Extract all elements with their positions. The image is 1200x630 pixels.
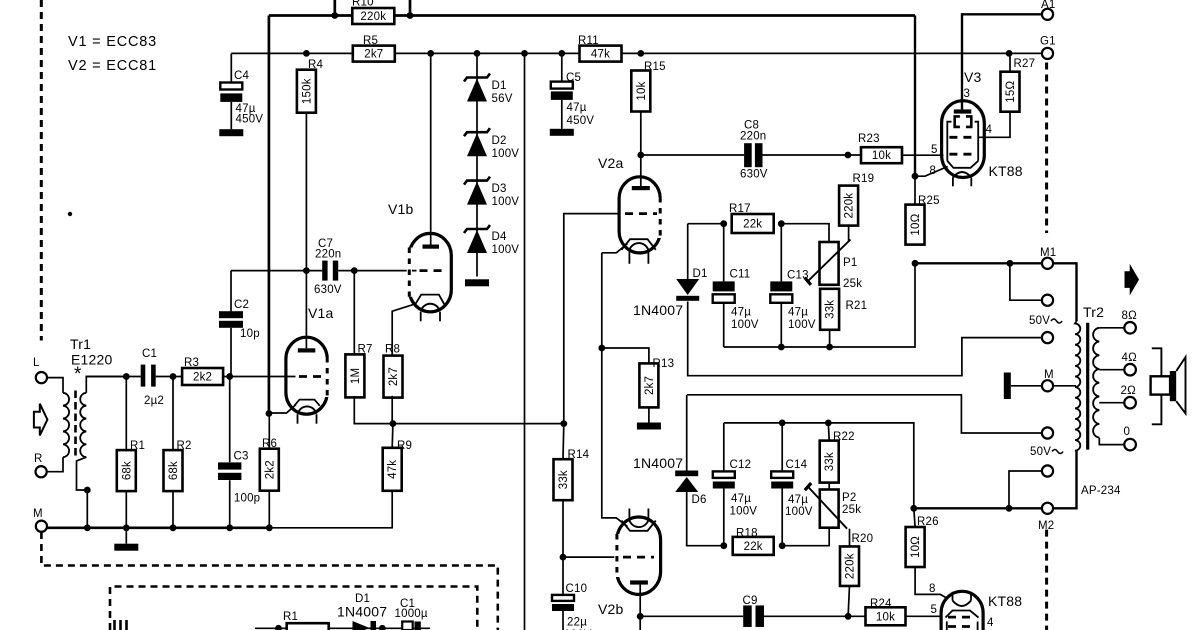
node: R22 top <box>825 420 832 427</box>
resistor R14 <box>554 459 573 500</box>
node: R21 bottom <box>826 344 833 351</box>
resistor R6 <box>260 449 279 491</box>
svg-text:C10: C10 <box>566 583 588 595</box>
svg-text:47µ: 47µ <box>788 307 808 319</box>
terminal M input <box>36 521 47 532</box>
svg-text:G1: G1 <box>1040 36 1056 48</box>
resistor R23 <box>861 147 902 163</box>
wire: C7 out to V1b grid <box>354 270 416 272</box>
wire: Tr1 secondary bottom to ground bus <box>77 457 88 528</box>
resistor R17 <box>732 214 774 233</box>
capacitor C2 wire <box>230 271 232 312</box>
capacitor C12 <box>723 423 725 472</box>
wire: x=525 long rail down to bottom edge <box>524 53 526 630</box>
svg-text:2k2: 2k2 <box>193 372 212 384</box>
potentiometer P1 <box>820 242 839 285</box>
wire: P2 wiper to R20 <box>849 529 851 547</box>
svg-text:A1: A1 <box>1041 0 1055 11</box>
svg-text:D4: D4 <box>492 231 508 243</box>
wire: B+ top rail to R10 <box>269 14 915 17</box>
svg-text:5: 5 <box>931 604 938 616</box>
svg-text:10k: 10k <box>872 150 891 162</box>
capacitor C11 <box>723 224 725 282</box>
resistor R10 <box>352 8 394 24</box>
node: C5 top <box>558 50 565 57</box>
svg-text:M: M <box>33 508 43 520</box>
tube V1b anode lead and plate <box>430 53 432 244</box>
input arrow <box>34 404 48 436</box>
tube V2a anode lead and plate <box>640 155 642 187</box>
svg-text:R1: R1 <box>130 440 145 452</box>
svg-text:47k: 47k <box>591 49 610 61</box>
terminal 8 ohm <box>1124 322 1136 334</box>
svg-text:KT88: KT88 <box>989 163 1023 179</box>
tube V1b envelope <box>409 233 451 311</box>
svg-text:47µ: 47µ <box>731 307 751 319</box>
output arrow <box>1125 264 1140 296</box>
node: V1b anode column top <box>427 50 434 57</box>
wire: M2 to primary bottom <box>1053 451 1076 508</box>
tube V4 heater legs <box>952 592 954 601</box>
diode D1 1N4007 <box>676 279 699 295</box>
svg-text:V1a: V1a <box>308 305 334 321</box>
svg-text:D6: D6 <box>692 494 707 506</box>
svg-text:8: 8 <box>930 165 937 177</box>
wire: D6 rail to 50V tap lower <box>687 395 1042 433</box>
wire: lower rail C12C14R22 tops <box>724 423 914 508</box>
node: C7 out / R7 top <box>351 267 358 274</box>
tube V3 cathode dome <box>947 161 978 168</box>
wire: R8 bottom <box>391 396 393 424</box>
wire: grid node to C3 <box>229 377 231 463</box>
svg-text:1N4007: 1N4007 <box>633 302 683 318</box>
capacitor C3 <box>218 462 241 469</box>
svg-text:220k: 220k <box>844 193 856 219</box>
tube V3 inner box <box>947 122 951 161</box>
wire: R2 column <box>172 377 174 451</box>
wire: D1 bottom to 50V tap rail <box>688 302 1042 376</box>
wire: secondary 4 ohm tap <box>1099 369 1124 371</box>
zener D2 <box>464 128 490 136</box>
node: R10 right junction <box>407 12 414 19</box>
svg-text:2k7: 2k7 <box>364 49 383 61</box>
wire: branch to second primary tap <box>1010 263 1042 300</box>
ground: zener chain <box>465 279 489 286</box>
svg-text:50V: 50V <box>1030 446 1051 458</box>
wire: V1a anode row <box>231 270 354 272</box>
node: R19/R23 junction <box>845 152 852 159</box>
svg-text:M: M <box>1044 369 1054 381</box>
node: V2a anode <box>637 152 644 159</box>
svg-text:R9: R9 <box>397 440 412 452</box>
svg-text:Tr1: Tr1 <box>70 336 91 352</box>
wire: V2a cathode lead <box>602 244 628 253</box>
svg-text:R2: R2 <box>177 440 192 452</box>
tube V3 beam plates <box>955 116 960 127</box>
tube V1b grid dashes <box>420 269 447 272</box>
svg-text:2µ2: 2µ2 <box>144 395 164 407</box>
node A: R17 left / C11 top <box>720 220 727 227</box>
svg-text:100V: 100V <box>788 319 816 331</box>
tube V1b cathode <box>415 295 444 305</box>
node: M2 branch <box>1006 505 1013 512</box>
dashed link M to PSU box <box>41 532 497 630</box>
svg-text:47µ: 47µ <box>567 102 587 114</box>
svg-text:220k: 220k <box>360 11 386 23</box>
wire: V1a cathode lead to R6 node <box>269 405 296 414</box>
resistor R8 <box>384 356 403 398</box>
node: M1 branch <box>1007 260 1014 267</box>
svg-text:450V: 450V <box>567 115 595 127</box>
node: x=525 rail top <box>521 50 528 57</box>
svg-text:C1: C1 <box>142 348 157 360</box>
wire: branch to tap 6 <box>1009 471 1042 508</box>
svg-text:*: * <box>74 364 82 385</box>
terminal M <box>1042 380 1053 391</box>
resistor R18 <box>733 537 774 555</box>
svg-text:C4: C4 <box>234 70 250 82</box>
svg-text:2k7: 2k7 <box>644 376 656 395</box>
node: C12 bottom / R18 left <box>720 542 727 549</box>
wire: V1b cathode lead to R8 <box>392 304 415 356</box>
svg-text:15Ω: 15Ω <box>1005 81 1017 103</box>
terminal 2 ohm <box>1124 397 1136 409</box>
wire: R27 top <box>1009 53 1011 71</box>
transformer Tr1 core <box>74 391 77 459</box>
node: R26 top <box>910 505 917 512</box>
capacitor C9 <box>743 605 764 627</box>
svg-text:8: 8 <box>929 583 936 595</box>
wire: R10 left stub up <box>333 0 336 16</box>
wire: upper cathode rail to R25 <box>724 263 915 347</box>
svg-text:C2: C2 <box>234 299 249 311</box>
svg-text:10Ω: 10Ω <box>910 213 922 235</box>
terminal 0 <box>1124 439 1136 451</box>
diode D6 1N4007 lead <box>686 395 688 471</box>
node: V1a cathode / R6 <box>266 410 273 417</box>
svg-text:33k: 33k <box>824 452 836 471</box>
transformer Tr2 secondary winding <box>1093 328 1099 438</box>
svg-text:22k: 22k <box>743 219 762 231</box>
svg-text:100V: 100V <box>492 148 520 160</box>
wire: R15 bottom to V2a anode node <box>640 112 642 156</box>
svg-text:D3: D3 <box>492 183 507 195</box>
node: bus C3 <box>226 524 233 531</box>
svg-text:4Ω: 4Ω <box>1122 352 1138 364</box>
PSU resistor R1 (cut) <box>287 623 329 630</box>
svg-text:R5: R5 <box>363 35 378 47</box>
wire: R17 node A to D1 <box>688 223 724 225</box>
svg-text:V2a: V2a <box>598 155 624 171</box>
speaker magnet bar <box>1170 371 1177 401</box>
svg-text:R24: R24 <box>870 598 892 610</box>
svg-text:R7: R7 <box>358 344 373 356</box>
tube V2b plate and anode lead <box>630 580 648 584</box>
wire: screen supply row y=53.4 from C4 to G1 <box>231 52 1041 54</box>
capacitor C1 <box>141 365 156 387</box>
resistor R22 <box>820 441 839 483</box>
svg-text:1M: 1M <box>350 368 362 384</box>
transformer Tr1 secondary winding <box>80 393 86 457</box>
wire: pin 4 from g2 to R27 <box>977 112 1010 138</box>
speaker cone <box>1176 357 1185 413</box>
svg-text:D2: D2 <box>492 135 507 147</box>
svg-text:R19: R19 <box>853 173 875 185</box>
tube V3 heater legs <box>952 178 954 187</box>
wire: node B to P1 top <box>781 224 829 242</box>
wire: R7 bottom <box>354 396 393 424</box>
node: V2b grid node <box>560 554 567 561</box>
wire: cathode column down to V2b cathode <box>602 348 628 527</box>
wire: secondary 0 tap <box>1099 438 1124 445</box>
tube V2b cathode on top <box>622 521 656 531</box>
svg-text:50V: 50V <box>1029 315 1050 327</box>
wire: R10 right stub up <box>409 0 412 16</box>
node: secondary bottom corner <box>84 487 91 494</box>
svg-text:8Ω: 8Ω <box>1122 310 1138 322</box>
wire: V2b grid wire <box>563 556 617 558</box>
svg-text:R26: R26 <box>917 516 939 528</box>
node: V2b anode <box>637 613 644 620</box>
svg-text:R17: R17 <box>729 203 751 215</box>
capacitor C5 lead <box>561 53 563 81</box>
PSU node <box>275 625 282 630</box>
svg-text:R: R <box>34 453 43 465</box>
svg-text:R23: R23 <box>858 133 880 145</box>
capacitor C7 <box>322 261 338 281</box>
svg-text:47µ: 47µ <box>788 494 808 506</box>
dashed PSU inner box <box>110 587 477 630</box>
wire: L to Tr1 primary <box>47 378 63 393</box>
zener chain wire from top row <box>476 53 478 276</box>
node B: R17 right / C13 top <box>778 220 785 227</box>
svg-text:R25: R25 <box>918 195 940 207</box>
svg-text:47µ: 47µ <box>731 493 751 505</box>
svg-text:1N4007: 1N4007 <box>337 604 387 620</box>
ground symbol below R1 <box>125 528 127 544</box>
resistor R2 <box>164 450 183 491</box>
node: bus R1 <box>123 524 130 531</box>
wire: V2a anode row to C8 and R23 <box>641 154 861 156</box>
PSU capacitor C1 (cut) <box>402 622 413 630</box>
transformer Tr2 core <box>1086 323 1089 450</box>
svg-text:R3: R3 <box>184 357 199 369</box>
resistor R3 <box>182 368 223 385</box>
ground: R13 <box>648 407 650 422</box>
svg-text:C5: C5 <box>566 72 581 84</box>
svg-text:100V: 100V <box>731 319 759 331</box>
wire: secondary 8 ohm tap <box>1099 327 1124 329</box>
svg-text:1000µ: 1000µ <box>395 608 428 620</box>
node: cathode/R13 junction <box>598 345 605 352</box>
dashed border right upper <box>1045 63 1048 234</box>
svg-text:220n: 220n <box>315 249 341 261</box>
svg-text:L: L <box>33 357 40 369</box>
speaker driver <box>1151 376 1171 394</box>
node: V1a anode / R4 <box>303 267 310 274</box>
PSU wire (cut) <box>255 627 430 629</box>
node: bus R6 <box>266 524 273 531</box>
svg-text:630V: 630V <box>740 169 768 181</box>
potentiometer P2 <box>820 490 839 528</box>
transformer Tr2 primary winding <box>1075 321 1080 451</box>
PSU node 2 <box>379 625 386 630</box>
svg-text:100V: 100V <box>492 196 520 208</box>
resistor R20 <box>840 546 859 586</box>
svg-text:2Ω: 2Ω <box>1121 385 1137 397</box>
svg-text:V1b: V1b <box>388 201 414 217</box>
wire: R23 to KT88 V3 pin 5 <box>902 154 944 156</box>
svg-text:R27: R27 <box>1014 58 1036 70</box>
svg-text:150k: 150k <box>301 78 313 104</box>
svg-text:68k: 68k <box>168 461 180 480</box>
svg-text:220k: 220k <box>845 553 857 579</box>
svg-text:2k7: 2k7 <box>388 367 400 386</box>
svg-text:220n: 220n <box>740 131 766 143</box>
tube V3 plate <box>954 109 972 113</box>
capacitor C10 <box>562 557 564 595</box>
svg-text:D1: D1 <box>693 268 708 280</box>
svg-text:450V: 450V <box>236 114 264 126</box>
terminal: primary tap 6 <box>1042 465 1053 476</box>
svg-text:1N4007: 1N4007 <box>633 455 683 471</box>
tube V4 g2 dashes <box>948 625 976 628</box>
input terminal R <box>36 466 47 477</box>
svg-text:4: 4 <box>986 124 993 136</box>
svg-text:10k: 10k <box>876 611 895 623</box>
svg-text:68k: 68k <box>121 461 133 480</box>
transformer Tr1 primary winding <box>63 393 69 457</box>
node: R10 left junction <box>331 12 338 19</box>
terminal: primary tap 2 <box>1042 295 1053 306</box>
wire: M1 row <box>915 262 1042 264</box>
svg-text:R20: R20 <box>852 533 874 545</box>
capacitor C2 <box>219 311 243 318</box>
svg-text:KT88: KT88 <box>988 593 1022 609</box>
capacitor C8 <box>744 143 762 167</box>
tube V3 KT88 envelope <box>942 101 985 178</box>
tube V2a cathode <box>622 239 656 250</box>
terminal: 50V tap upper <box>1042 332 1053 343</box>
svg-text:AP-234: AP-234 <box>1081 485 1121 497</box>
tube V1a envelope <box>286 337 327 414</box>
svg-text:R10: R10 <box>352 0 374 9</box>
capacitor C5 <box>551 82 573 89</box>
wire: thick feedback column x=269 down to V1a cathode node <box>268 16 271 414</box>
resistor R7 <box>345 354 364 397</box>
terminal: 50V tap lower <box>1042 427 1053 438</box>
svg-text:3: 3 <box>964 88 971 100</box>
wire: R19 bottom to P1 wiper <box>848 226 850 242</box>
node: R27 top <box>1006 50 1013 57</box>
tube V3 g2 dashes <box>949 136 977 139</box>
capacitor C13 <box>780 224 782 282</box>
svg-text:R22: R22 <box>833 431 855 443</box>
svg-text:10k: 10k <box>636 81 648 100</box>
wire: R24 to KT88 pin 5 <box>906 615 942 617</box>
resistor R4 <box>297 70 316 113</box>
wire: input row <box>87 376 295 378</box>
node: R4 top <box>303 50 310 57</box>
svg-text:100V: 100V <box>730 506 758 518</box>
capacitor C14 <box>781 423 783 472</box>
svg-text:M1: M1 <box>1040 247 1056 259</box>
svg-text:R14: R14 <box>568 449 590 461</box>
svg-text:P1: P1 <box>843 257 857 269</box>
wire: V2b anode down <box>639 616 641 630</box>
tube V1a cathode <box>294 400 320 406</box>
wire: M terminal to primary center tap <box>1053 385 1076 387</box>
wire: C2 to grid node <box>230 328 232 377</box>
svg-text:R11: R11 <box>578 35 599 47</box>
terminal M2 <box>1042 503 1053 514</box>
wire: R to Tr1 primary bottom <box>47 457 63 472</box>
node: C14 bottom / R18 right <box>779 542 786 549</box>
stray dot <box>68 212 72 216</box>
tube V4 inner box <box>946 622 948 630</box>
svg-text:100p: 100p <box>234 493 260 505</box>
node: R8/R9 junction <box>390 420 397 427</box>
svg-text:10p: 10p <box>240 328 260 340</box>
svg-text:C3: C3 <box>234 451 249 463</box>
svg-text:100V: 100V <box>492 244 520 256</box>
svg-text:100V: 100V <box>785 506 813 518</box>
svg-text:33k: 33k <box>558 470 570 489</box>
wire: R26 bottom to KT88 pin 8 <box>915 567 947 599</box>
resistor R26 <box>906 527 925 567</box>
svg-text:56V: 56V <box>492 93 513 105</box>
svg-text:C9: C9 <box>743 595 758 607</box>
terminal M1 <box>1042 258 1053 269</box>
wire: A1 anode feed <box>962 14 1042 109</box>
svg-text:R1: R1 <box>283 611 298 623</box>
tube V2a envelope <box>619 177 660 253</box>
tube V4 KT88 envelope (inverted) <box>941 591 983 630</box>
wire: cathode junction to R13 <box>602 348 649 363</box>
node: R3 out / grid V1a <box>226 373 233 380</box>
node: bus R2 <box>170 524 177 531</box>
svg-text:22k: 22k <box>744 541 763 553</box>
resistor R25 <box>906 205 925 245</box>
svg-text:R15: R15 <box>644 61 666 73</box>
ground bus <box>47 526 269 529</box>
svg-text:V1 = ECC83: V1 = ECC83 <box>68 34 157 50</box>
node: R25 bottom / output M1 node <box>912 260 919 267</box>
capacitor C4 <box>220 83 242 90</box>
diode D6 1N4007 <box>675 471 698 477</box>
wire: C9 row <box>640 615 866 617</box>
capacitor C4 lead <box>230 53 232 82</box>
svg-text:C12: C12 <box>730 459 752 471</box>
wire: chassis bar to M terminal <box>1011 385 1042 387</box>
node: C14 top <box>779 420 786 427</box>
svg-text:V2b: V2b <box>598 601 624 617</box>
svg-text:0: 0 <box>1124 426 1131 438</box>
wire: C3 to bus <box>229 480 231 528</box>
svg-text:10Ω: 10Ω <box>910 536 922 558</box>
resistor R24 <box>866 607 906 625</box>
svg-text:22µ: 22µ <box>567 617 587 629</box>
dashed border right lower <box>1045 530 1048 630</box>
svg-text:R21: R21 <box>846 300 868 312</box>
svg-text:Tr2: Tr2 <box>1083 304 1104 320</box>
zener D1 <box>464 74 490 82</box>
resistor R13 <box>639 363 658 407</box>
svg-text:25k: 25k <box>842 504 861 516</box>
resistor R21 <box>820 289 839 330</box>
resistor R9 <box>383 448 402 491</box>
zener D3 <box>464 177 490 185</box>
